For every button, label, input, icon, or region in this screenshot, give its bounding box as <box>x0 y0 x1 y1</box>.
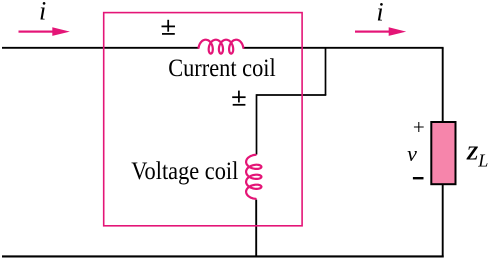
svg-text:Z: Z <box>466 144 479 165</box>
wire: top rail left segment <box>2 47 198 49</box>
svg-text:i: i <box>376 0 383 26</box>
wire: feed down to voltage coil <box>256 94 258 154</box>
inductor: voltage coil <box>246 155 261 199</box>
svg-text:+: + <box>413 115 425 139</box>
wire: junction drop from top rail <box>325 48 327 95</box>
wire: top rail right segment <box>244 47 444 49</box>
wire: load to bottom rail <box>442 184 444 257</box>
label − <box>413 177 424 179</box>
current arrow right <box>355 27 406 36</box>
wire: voltage coil down to bottom rail <box>255 200 257 258</box>
load Z_L <box>431 122 455 184</box>
wire: step across to voltage coil column <box>257 94 327 96</box>
svg-text:v: v <box>407 141 417 166</box>
wattmeter box <box>104 13 302 226</box>
wire: bottom rail <box>2 255 444 257</box>
svg-text:Voltage coil: Voltage coil <box>131 158 238 185</box>
polarity mark ± for current coil <box>162 20 176 34</box>
polarity mark ± for voltage coil <box>232 91 245 105</box>
inductor: current coil <box>199 40 244 54</box>
wire: right side down to load <box>442 48 444 122</box>
svg-text:i: i <box>39 0 46 25</box>
svg-text:L: L <box>477 151 488 171</box>
current arrow left <box>19 27 70 36</box>
svg-text:Current coil: Current coil <box>168 55 276 82</box>
